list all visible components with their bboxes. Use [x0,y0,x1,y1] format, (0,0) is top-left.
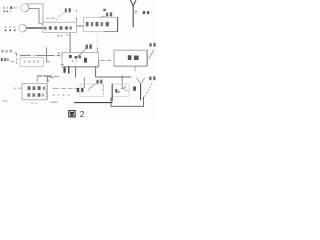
dashed wire from B4 right toward x84 drop [53,87,80,89]
box U2 right edge (dark) [117,17,119,32]
ref numeral with curved leader (above oscillator right) [76,48,87,58]
wire from M1 upper lead to modulator top [28,4,43,17]
box U2 RF amplifier [84,17,118,31]
box B4 control/processor (bottom left, two-line text) [22,84,47,100]
antenna ANT1 (top right) [130,0,136,27]
box A2 oscillator [62,53,99,67]
microphone M1 (circle, top-left) [25,4,29,12]
ref numeral pair near x84 drop (dark) [77,88,84,92]
left label row 1 (middle section) [1,50,12,53]
box U1 modulator [43,22,77,32]
box A2 bottom edge (dark) [62,66,99,68]
vertical wire crossing dash-dot line [47,47,50,62]
drop wire at x84 from bus [83,77,85,88]
U-shaped return wire (bottom right) [111,97,144,107]
dots at end of dash-dot wire [58,52,60,56]
antenna ANT2 (bottom right) [137,78,145,84]
drop wire from bus down at x122 [121,75,123,88]
box B3 mixer/output stage (right middle) [114,50,147,66]
box U2 text [86,22,109,27]
dashed leader down to modulator corner [76,10,78,22]
node IN1 label (left of microphone M1) [3,6,18,12]
solid bus (right part) [96,76,132,78]
dashed wire oscillator to mixer box (right) [100,60,111,62]
microphone M2 (circle, mid-left) [22,25,26,32]
wire modulator to amplifier [77,25,84,27]
stub from B3 bottom down [134,66,136,71]
caption: figure glyph 图 [69,111,75,117]
gamma wire with arrow into control box [37,76,50,83]
box A2 right edge lower part [98,60,100,67]
node IN2 label (left of microphone M2) [5,26,16,31]
dashed stub at modulator top edge [46,17,54,19]
dashed vertical (enclosure corner, left) [14,53,17,64]
dash-dot control wire (middle, to oscillator) [20,54,59,56]
ref numeral 21 (below oscillator, dark) [63,66,69,73]
wire modulator down to oscillator box [69,33,71,53]
dashed bus below (left part) [38,65,63,77]
bottom bus wire [51,101,58,103]
box B4 text row 1 [28,86,45,90]
box U2 bottom edge right part [104,31,118,33]
curved leader with numeral (bottom right) [144,81,152,97]
box A1 (faint, left-middle) [20,57,43,66]
ref numeral 13 with curved leader (above modulator) [57,13,65,21]
vertical wire x112 (dark) [111,84,113,101]
box B4 text row 2 [27,93,43,97]
ref numeral right of x112 wire [115,89,119,93]
faint marks below modulator [57,34,68,37]
faint marks right of drop [124,86,126,88]
svg-text:2: 2 [80,109,85,119]
wire from M2 to modulator (dark) [26,27,46,29]
ref numeral 22 (right of ANT1) [143,11,149,14]
box A2 left corner mark [61,53,63,57]
faint box outlines bottom middle [80,84,104,97]
dashed stub into B4 left [2,88,38,103]
ref numeral 23 with tilde leader (above amplifier) [100,16,105,18]
tick marks near ANT1 [135,11,138,13]
faint wire amplifier down (to oscillator top right) [96,33,98,48]
faint dotted row under dashed wire [53,94,69,96]
box A2 text [69,55,87,63]
wire oscillator right-bottom down to bus [95,67,97,77]
ref numeral with curved leader (right of B3) [149,50,154,59]
wire oscillator bottom down (x75.5) [75,67,77,78]
ref numeral left of ANT2 [133,86,136,90]
box B3 text [128,55,139,60]
curved leader with numeral (bottom middle) [88,82,100,91]
dash toward box A1 [11,61,15,63]
box U1 text [49,26,72,29]
wire from M1 lower lead into modulator left [29,8,44,23]
junction tick at modulator left edge [45,27,47,31]
left label row 2 (darker) [1,58,9,61]
